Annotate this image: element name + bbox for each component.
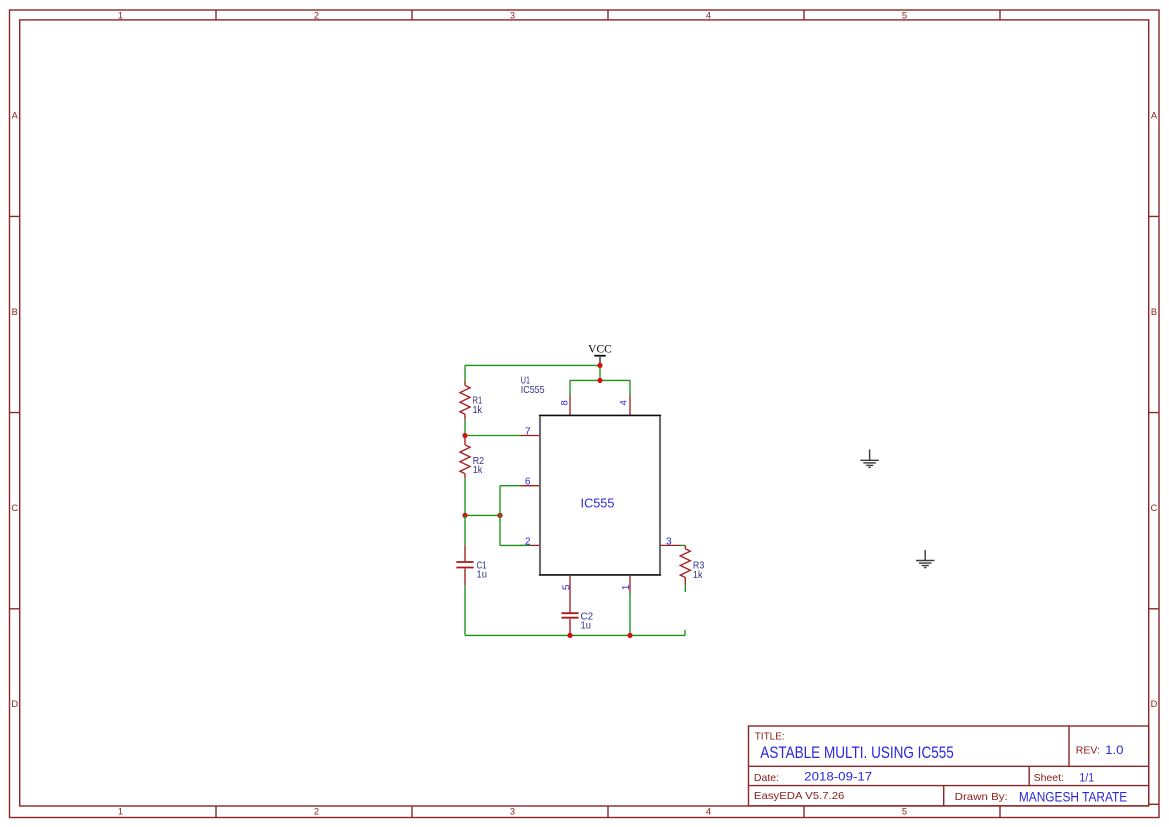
svg-text:2: 2 [314, 806, 319, 816]
wire: bottom rail [465, 634, 685, 636]
svg-text:MANGESH TARATE: MANGESH TARATE [1019, 790, 1127, 805]
svg-text:2018-09-17: 2018-09-17 [804, 770, 872, 784]
svg-text:3: 3 [510, 10, 515, 20]
svg-text:IC555: IC555 [581, 496, 615, 511]
capacitor C2 [561, 595, 578, 635]
svg-text:B: B [1151, 307, 1157, 317]
svg-text:IC555: IC555 [521, 385, 545, 396]
VCC symbol [588, 344, 612, 366]
svg-text:D: D [11, 699, 18, 709]
svg-text:1/1: 1/1 [1079, 770, 1094, 784]
wire: R1 bottom to junction [464, 420, 466, 436]
svg-text:Date:: Date: [754, 772, 779, 784]
wire: drop to pin 8 [569, 380, 571, 395]
svg-text:1u: 1u [477, 570, 488, 581]
wire: down to C1 [464, 515, 466, 545]
junction left [462, 513, 467, 518]
junction at R1/R2/pin7 [462, 433, 467, 438]
svg-text:5: 5 [561, 584, 572, 590]
svg-text:8: 8 [560, 400, 571, 405]
svg-text:C: C [1151, 503, 1158, 513]
wire: R3 bottom stub [684, 585, 686, 592]
svg-text:C: C [11, 503, 18, 513]
pin 5 of U1 [569, 575, 571, 595]
junction C2/ground rail [567, 633, 572, 638]
svg-text:Sheet:: Sheet: [1034, 772, 1064, 784]
pin 8 of U1 [569, 395, 571, 415]
wire: pin 2 horizontal [500, 544, 530, 546]
wire: pin 7 horizontal [465, 435, 521, 437]
resistor R1 [460, 381, 470, 420]
svg-text:4: 4 [706, 10, 711, 20]
svg-text:7: 7 [525, 427, 531, 438]
svg-text:3: 3 [510, 806, 515, 816]
junction pin1/ground rail [627, 633, 632, 638]
svg-text:1: 1 [118, 10, 123, 20]
pin 3 of U1 [660, 544, 680, 546]
wire: VCC stem to pin rail [599, 365, 601, 380]
svg-text:B: B [12, 307, 18, 317]
pin 4 of U1 [629, 395, 631, 415]
svg-text:TITLE:: TITLE: [755, 732, 785, 743]
pin 2 of U1 [520, 544, 540, 546]
capacitor C1 [456, 545, 473, 585]
resistor R3 [680, 545, 690, 585]
junction VCC top [597, 363, 602, 368]
svg-text:2: 2 [525, 536, 531, 547]
svg-text:4: 4 [619, 399, 630, 405]
svg-text:1k: 1k [693, 570, 703, 581]
svg-text:A: A [1151, 111, 1158, 121]
svg-text:3: 3 [666, 536, 672, 547]
svg-text:6: 6 [525, 477, 531, 488]
wire: pin 6 horizontal [500, 485, 521, 487]
svg-text:1: 1 [118, 806, 123, 816]
svg-text:VCC: VCC [588, 344, 612, 356]
svg-text:1k: 1k [473, 405, 483, 416]
svg-text:REV:: REV: [1076, 744, 1100, 756]
svg-text:1.0: 1.0 [1105, 743, 1124, 757]
svg-text:D: D [1151, 699, 1158, 709]
svg-text:5: 5 [902, 806, 907, 816]
svg-text:EasyEDA V5.7.26: EasyEDA V5.7.26 [754, 790, 845, 802]
ground symbol 2 [916, 550, 934, 568]
svg-text:1u: 1u [581, 621, 592, 632]
junction mid [497, 513, 502, 518]
wire: drop to pin 4 [629, 380, 631, 395]
ground symbol 1 [860, 449, 878, 467]
wire: bottom right stub [684, 630, 686, 636]
wire: left rail down from top to R1 [464, 365, 466, 381]
wire: R2 bottom down to junction row [464, 478, 466, 515]
svg-text:ASTABLE MULTI. USING IC555: ASTABLE MULTI. USING IC555 [760, 744, 954, 762]
IC555 body U1 [539, 415, 661, 575]
wire: pin 1 down to rail [629, 593, 631, 636]
svg-text:5: 5 [902, 10, 907, 20]
pin 6 of U1 [520, 485, 540, 487]
svg-text:A: A [12, 111, 19, 121]
wire: vertical between pin6 and pin2 [499, 486, 501, 546]
svg-text:1: 1 [621, 584, 632, 590]
wire: C1 bottom to ground rail [464, 585, 466, 635]
resistor R2 [460, 437, 470, 478]
svg-text:Drawn By:: Drawn By: [955, 791, 1008, 803]
wire: pin 3 stub [680, 544, 685, 546]
wire: top rail VCC horizontal [465, 364, 600, 366]
svg-text:4: 4 [706, 806, 711, 816]
svg-text:2: 2 [314, 10, 319, 20]
wire: junction row horizontal [465, 514, 500, 516]
svg-text:1k: 1k [473, 465, 483, 476]
junction VCC rail [597, 378, 602, 383]
pin 1 of U1 [629, 575, 631, 594]
wire: rail above pins 8 and 4 [570, 379, 630, 381]
pin 7 of U1 [520, 435, 540, 437]
